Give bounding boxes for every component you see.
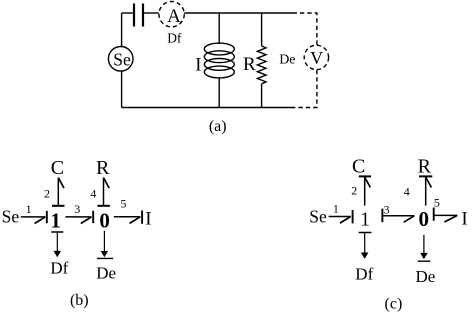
bond 4 0->R (c): causal stroke at R, line, harpoon <box>419 176 432 205</box>
signal bond 1->Df (c): causal stroke, line, arrowhead <box>359 233 372 259</box>
svg-text:4: 4 <box>90 186 96 200</box>
wire resistor branch bottom <box>261 84 263 108</box>
svg-text:I: I <box>195 56 201 76</box>
svg-text:2: 2 <box>44 186 50 200</box>
svg-text:4: 4 <box>404 185 410 199</box>
svg-text:Se: Se <box>113 50 131 70</box>
bond 2 1->C (b): line, harpoon, causal stroke <box>52 178 65 206</box>
svg-text:1: 1 <box>50 208 61 232</box>
svg-text:Df: Df <box>355 264 373 283</box>
svg-text:R: R <box>96 157 110 179</box>
svg-text:Df: Df <box>50 259 68 278</box>
svg-text:C: C <box>51 157 64 179</box>
dashed wire bottom-right corner <box>292 70 317 108</box>
bond 3 1->0 (b): line, harpoon, causal stroke <box>65 211 93 224</box>
wire top-left horizontal <box>122 12 133 14</box>
svg-text:3: 3 <box>74 202 80 216</box>
svg-text:5: 5 <box>434 195 440 209</box>
svg-text:Se: Se <box>309 206 327 226</box>
svg-text:2: 2 <box>351 184 357 198</box>
bond 2 1->C (c): causal stroke at C, line, harpoon <box>359 176 371 205</box>
wire left vertical upper <box>121 13 123 47</box>
svg-text:1: 1 <box>26 202 32 216</box>
bond 4 0->R (b): line, harpoon, causal stroke <box>97 178 110 206</box>
svg-text:Df: Df <box>167 30 182 45</box>
wire left vertical lower <box>121 71 123 107</box>
bond 5 0->I (b): line, harpoon, causal stroke <box>114 211 142 224</box>
bond 3 1->0 (c): causal stroke at 1, line, harpoon <box>382 209 414 223</box>
voltmeter V dashed circle (De detector) <box>304 45 328 69</box>
svg-text:A: A <box>167 6 181 27</box>
svg-text:(a): (a) <box>209 118 227 135</box>
inductor I coil <box>204 43 234 55</box>
signal bond 0->De (b): line, arrowhead, causal stroke <box>97 231 113 259</box>
wire resistor branch top <box>261 13 263 46</box>
wire bottom rail <box>122 107 293 109</box>
bond 1 Se->1 (c): line, harpoon, causal stroke <box>329 210 353 223</box>
bond 5 0->I (c): causal stroke at 0, line, harpoon <box>434 208 458 223</box>
svg-text:De: De <box>416 267 436 286</box>
capacitor C plates <box>134 4 143 27</box>
svg-text:R: R <box>243 54 256 75</box>
wire inductor branch bottom <box>218 78 220 108</box>
svg-text:De: De <box>279 53 295 68</box>
resistor R zigzag <box>257 46 266 84</box>
wire inductor branch top <box>218 13 220 44</box>
svg-text:C: C <box>352 156 365 178</box>
svg-text:1: 1 <box>360 210 370 231</box>
svg-text:0: 0 <box>419 207 430 231</box>
svg-text:R: R <box>418 156 432 178</box>
svg-text:(b): (b) <box>70 292 89 309</box>
svg-text:0: 0 <box>99 209 110 233</box>
signal bond 0->De (c): line, arrowhead, causal stroke <box>418 235 431 262</box>
source Se circle <box>108 47 133 72</box>
svg-text:1: 1 <box>333 201 339 215</box>
svg-text:De: De <box>96 263 116 282</box>
svg-text:3: 3 <box>384 202 390 216</box>
svg-text:V: V <box>310 48 323 68</box>
svg-text:Se: Se <box>2 207 20 227</box>
bond 1 Se->1 (b): line, harpoon, causal stroke <box>21 211 47 224</box>
svg-text:(c): (c) <box>385 295 403 312</box>
svg-text:I: I <box>461 209 467 230</box>
svg-text:5: 5 <box>120 197 126 211</box>
signal bond 1->Df (b): causal stroke, line, arrowhead <box>51 232 63 257</box>
ammeter A dashed circle (Df detector) <box>159 2 184 27</box>
dashed wire top-right corner <box>293 13 317 45</box>
wire capacitor to ammeter <box>144 12 159 14</box>
svg-text:I: I <box>145 209 151 230</box>
wire ammeter to right <box>184 12 292 14</box>
